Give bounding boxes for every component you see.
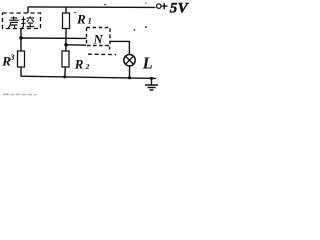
svg-text:+: + (161, 0, 168, 13)
svg-text:1: 1 (88, 15, 92, 25)
svg-text:2: 2 (85, 62, 90, 71)
svg-text:R: R (76, 12, 86, 27)
svg-text:N: N (93, 33, 104, 47)
svg-text:L: L (142, 54, 153, 73)
svg-text:5V: 5V (170, 1, 190, 17)
svg-text:R: R (74, 56, 84, 71)
svg-text:3: 3 (9, 52, 15, 62)
